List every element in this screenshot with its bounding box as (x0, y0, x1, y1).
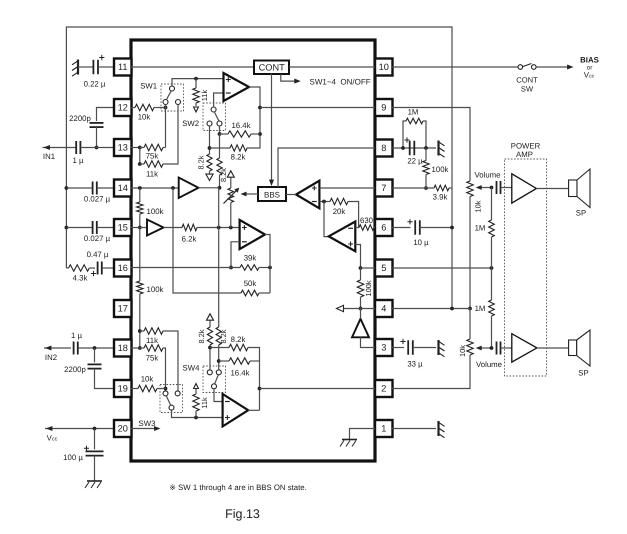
pin 18 (114, 340, 132, 357)
wire frame right continuation to pin 4 net (451, 228, 453, 309)
svg-text:BBS: BBS (264, 191, 280, 200)
svg-text:11k: 11k (146, 170, 158, 179)
ground (pin 3) (437, 340, 439, 355)
svg-text:8.2k: 8.2k (197, 329, 206, 343)
svg-text:3.9k: 3.9k (433, 193, 448, 202)
svg-text:39k: 39k (244, 254, 257, 263)
svg-text:10k: 10k (458, 345, 467, 357)
svg-text:6: 6 (381, 223, 386, 233)
wire pin 6 external (392, 227, 411, 229)
CONT block (254, 61, 289, 75)
wire CONT to pin 10 (289, 66, 375, 68)
node IN1 input arrow (43, 147, 77, 149)
wire SW3 common to op-amp U4 + (172, 410, 223, 417)
svg-text:8.2k: 8.2k (231, 153, 246, 162)
svg-text:10: 10 (379, 62, 389, 72)
svg-text:SP: SP (576, 209, 586, 218)
svg-text:16: 16 (118, 263, 128, 273)
capacitor 0.22u (92, 60, 94, 75)
svg-text:11k: 11k (146, 336, 158, 345)
wire BBS output arrow to variable resistor (245, 193, 259, 195)
open arrow up + resistor 8.2k (vertical left bottom) (207, 314, 214, 320)
svg-text:16.4k: 16.4k (231, 121, 250, 130)
svg-text:1 µ: 1 µ (73, 156, 85, 165)
power amp A5 (lower) (512, 334, 537, 362)
svg-text:7: 7 (381, 183, 386, 193)
resistor 20k (330, 198, 348, 204)
resistor 630 (355, 227, 359, 229)
svg-text:0.027 µ: 0.027 µ (84, 195, 111, 204)
ground (pin 1) (437, 421, 439, 436)
pin 17 (114, 300, 132, 317)
wire (78, 66, 93, 68)
svg-text:630: 630 (360, 216, 374, 225)
wire U2 output (265, 235, 270, 294)
svg-text:10 µ: 10 µ (413, 238, 429, 247)
switch SW3 (160, 385, 183, 413)
resistor 11k (pin 18 upper) (140, 330, 144, 332)
pin 7 (375, 180, 393, 197)
pin 4 (375, 300, 393, 317)
wire pin 13 (131, 147, 140, 149)
resistor 10k (pin 19) (131, 388, 138, 390)
wiper arrow volume 1 (478, 187, 492, 189)
capacitor 10u (414, 220, 416, 235)
wire U5 output to U3 - (324, 202, 329, 237)
ground below 100u (94, 456, 96, 481)
resistor 1M (lower right vertical) (491, 268, 493, 300)
node IN2 input arrow (44, 347, 71, 349)
wire A3 input from pin 3 (361, 337, 376, 347)
wire pin 5 internal (361, 267, 376, 269)
switch CONT SW (518, 65, 523, 70)
SW1 lever (167, 91, 172, 99)
wire pin12 external to 2200p (97, 108, 115, 122)
switch SW1 (161, 84, 184, 111)
op-amp U5 (points left) (329, 222, 356, 252)
resistor 16.4k (bottom) (219, 360, 229, 362)
wire to power amp (501, 187, 512, 189)
svg-text:4: 4 (381, 304, 386, 314)
wire pin 5 external (392, 267, 492, 269)
wire pin 2 internal (260, 388, 376, 390)
resistor 8.2k (vertical right bottom) (218, 326, 220, 328)
wire pin 1 external to ground (392, 428, 436, 430)
wire 11k to SW1 right contact (163, 105, 178, 165)
capacitor coupling (lower amp) (496, 342, 498, 355)
svg-text:8: 8 (381, 143, 386, 153)
wire pot to pin 4 net (469, 197, 471, 309)
svg-text:SW3: SW3 (139, 419, 156, 428)
wire long vertical (buffer node to SW4) (218, 188, 220, 228)
IC body (20-pin) (131, 40, 375, 461)
svg-text:0.22 µ: 0.22 µ (84, 80, 106, 89)
wire pin 8 internal to BBS (278, 148, 375, 187)
svg-text:50k: 50k (244, 279, 257, 288)
wire CONT down to BBS with arrow (271, 74, 273, 183)
resistor 75k (pin 18) (144, 345, 163, 351)
svg-text:14: 14 (118, 183, 128, 193)
svg-text:11k: 11k (200, 397, 209, 409)
wire outer frame left (pin16 net) (66, 27, 452, 268)
resistor 10k (pin 12) (131, 107, 135, 109)
pin 13 (114, 139, 132, 156)
potentiometer Volume 10k (upper) (467, 181, 473, 197)
capacitor 2200p (top) (90, 122, 104, 124)
open arrow down (11k) (195, 103, 197, 106)
svg-text:11k: 11k (200, 90, 209, 102)
pin 19 (114, 380, 132, 397)
wire A1 output (199, 187, 220, 189)
svg-text:3: 3 (381, 343, 386, 353)
wire pin 4 external (392, 308, 470, 310)
wire to pin 19 (95, 369, 115, 389)
wire pin 11 to CONT (131, 66, 254, 68)
svg-text:CONT: CONT (516, 76, 538, 85)
wire (98, 66, 114, 68)
switch SW4 (203, 366, 226, 393)
svg-text:12: 12 (118, 103, 128, 113)
SW2 lever (214, 112, 219, 121)
potentiometer Volume 10k (lower) (467, 339, 473, 355)
wire pin 9 internal (260, 107, 375, 109)
open arrow down (8.2k left) (209, 171, 211, 174)
power amp A4 (upper) (512, 174, 537, 203)
wire 0.027u to frame (pin 15) (65, 226, 69, 230)
svg-text:5: 5 (381, 263, 386, 273)
capacitor 33u (407, 340, 409, 355)
wire 20k to 630 node (348, 202, 359, 228)
pin 5 (375, 260, 393, 277)
svg-text:1M: 1M (408, 108, 419, 117)
wire 11k to SW3 right contact (163, 331, 178, 391)
svg-text:1M: 1M (475, 304, 486, 313)
svg-text:100k: 100k (147, 285, 164, 294)
op-amp U1 (224, 73, 250, 101)
wire 16.4k right end (250, 360, 260, 362)
wire amp to speaker 2 (537, 347, 569, 349)
svg-text:AMP: AMP (516, 150, 533, 159)
svg-text:2: 2 (381, 384, 386, 394)
capacitor 1u (IN1) (75, 141, 77, 154)
resistor 4.3k (pin 16) (66, 267, 68, 269)
svg-text:17: 17 (118, 304, 128, 314)
svg-text:33 µ: 33 µ (407, 360, 423, 369)
svg-text:75k: 75k (146, 354, 159, 363)
wire SW2 right contact down (219, 126, 221, 134)
pin 1 (375, 420, 393, 437)
wire SW1 common up to op-amp U1 + (172, 79, 224, 86)
pin 9 (375, 99, 393, 116)
resistor 3.9k (434, 185, 449, 191)
capacitor 22u (409, 141, 411, 156)
wire amp to speaker 1 (536, 188, 569, 190)
wire 75k to SW3 (163, 348, 166, 391)
wire A2 out to 6.2k (164, 227, 183, 229)
wire op-amp U1 - to SW2 common (214, 93, 224, 107)
wire 0.027u to frame (pin 14) (65, 186, 69, 190)
svg-text:0.47 µ: 0.47 µ (87, 250, 109, 259)
svg-text:6.2k: 6.2k (182, 235, 197, 244)
wire pin 10 to CONT SW (392, 66, 518, 68)
wire (154, 107, 166, 109)
wire 8.2k right end up (247, 134, 260, 148)
resistor 8.2k (vertical left) (207, 154, 212, 171)
POWER AMP dashed box (505, 159, 547, 376)
wire CONT control to SW1~4 with arrow (281, 74, 297, 81)
svg-text:2200p: 2200p (69, 114, 91, 123)
resistor 1M (upper right vertical) (491, 188, 493, 221)
wire pin 7 external (392, 187, 434, 189)
svg-text:10k: 10k (141, 375, 154, 384)
wire U1 output down to pin 9 net (249, 87, 260, 134)
pin 12 (114, 99, 132, 116)
svg-text:22 µ: 22 µ (407, 157, 423, 166)
capacitor 0.027u (pin 14) (92, 182, 94, 195)
BBS block (258, 187, 286, 201)
resistor 1M (pin 8 bridge) (403, 121, 406, 148)
svg-text:1M: 1M (475, 224, 486, 233)
resistor 8.2k (horizontal upper) (210, 147, 231, 149)
wire pin 9 to volume 1 (392, 108, 470, 182)
svg-text:Volume: Volume (476, 360, 502, 369)
pin 14 (114, 180, 132, 197)
wire down to buffer node (219, 175, 221, 188)
wire (96, 127, 98, 147)
capacitor 1u (IN2) (73, 342, 75, 355)
wire pin13 node down (139, 148, 141, 165)
variable arrow diagonal (224, 190, 238, 204)
svg-text:※ SW 1 through 4 are in BBS ON: ※ SW 1 through 4 are in BBS ON state. (169, 483, 306, 492)
buffer amp A2 (pin 15) (147, 220, 164, 236)
pin 15 (114, 219, 132, 236)
svg-text:100k: 100k (364, 280, 373, 296)
svg-text:Fig.13: Fig.13 (225, 507, 260, 521)
wire (97, 187, 114, 189)
wire U2 - input (231, 242, 240, 268)
capacitor 0.47u (pin 16) (97, 262, 99, 275)
pin 8 (375, 140, 393, 157)
svg-text:SW4: SW4 (183, 363, 201, 372)
SW3 lever (166, 396, 170, 405)
svg-text:100k: 100k (432, 165, 449, 174)
svg-text:8.2k: 8.2k (219, 168, 228, 182)
resistor 75k (pin 13) (144, 144, 163, 150)
svg-text:13: 13 (118, 143, 128, 153)
svg-text:11: 11 (118, 62, 128, 72)
buffer amp A1 (pin 14) (179, 178, 199, 199)
wire (89, 267, 95, 269)
svg-text:20: 20 (118, 424, 128, 434)
wire pin 15 internal (131, 227, 147, 229)
wire pin 18 internal (131, 347, 144, 349)
wire 6.2k to op-amp U2 + (197, 227, 240, 229)
wiper arrow volume 2 (478, 347, 492, 349)
pin 16 (114, 260, 132, 277)
wire U4 output (248, 409, 259, 411)
wire pin 7 internal to U3 + (319, 187, 375, 189)
capacitor coupling (upper amp) (496, 181, 498, 194)
resistor 50k (173, 188, 241, 293)
pin 2 (375, 380, 393, 397)
svg-text:BIAS: BIAS (580, 56, 599, 65)
wire pin 4 internal with open arrow (337, 305, 344, 311)
svg-text:1 µ: 1 µ (71, 331, 83, 340)
wire (102, 267, 114, 269)
svg-text:Volume: Volume (474, 171, 500, 180)
speaker SP (lower) (569, 340, 577, 356)
wire pin 8 external (392, 147, 436, 149)
wire U3 - node (319, 201, 330, 203)
ground at 0.22u cap (pin 11) (77, 60, 79, 75)
pin 10 (375, 59, 393, 76)
resistor 100k (lower vertical) (137, 281, 143, 294)
svg-text:SW2: SW2 (182, 119, 199, 128)
wire U5 + down to pin 5 (355, 245, 360, 269)
resistor 11k (SW1 shunt) (195, 79, 197, 88)
svg-text:4.3k: 4.3k (73, 274, 88, 283)
resistor 11k (SW4 shunt) (194, 384, 199, 389)
svg-text:15: 15 (118, 223, 128, 233)
wire SW4 common to op-amp U4 - (214, 389, 223, 402)
svg-text:100k: 100k (147, 207, 164, 216)
resistor 100k (upper vertical) (139, 188, 141, 202)
wire (81, 147, 115, 149)
op-amp U3 (BBS driver, points left) (296, 181, 319, 209)
wire pin 1 internal to ground (350, 429, 376, 440)
wire to BIAS arrow (536, 66, 570, 68)
variable resistor (BBS controlled) (227, 171, 234, 177)
pin 20 (114, 420, 132, 437)
svg-text:10k: 10k (474, 200, 483, 212)
wire pin 2 external to volume 2 (392, 355, 470, 389)
resistor 11k (pin 13 lower) (140, 163, 144, 165)
svg-text:8.2k: 8.2k (197, 155, 206, 169)
svg-text:SW1: SW1 (140, 82, 157, 91)
svg-text:1: 1 (381, 424, 386, 434)
svg-text:100 µ: 100 µ (63, 453, 83, 462)
svg-text:18: 18 (118, 343, 128, 353)
svg-text:16.4k: 16.4k (230, 369, 249, 378)
svg-text:10k: 10k (138, 113, 151, 122)
svg-text:20k: 20k (333, 207, 346, 216)
pin 11 (114, 59, 132, 76)
switch SW2 (203, 103, 226, 131)
resistor 16.4k (220, 133, 229, 135)
resistor 6.2k (182, 224, 197, 230)
svg-text:SP: SP (578, 369, 588, 378)
capacitor 2200p (bottom) (94, 348, 96, 362)
svg-text:19: 19 (118, 384, 128, 394)
wire pin 14 internal (131, 187, 179, 189)
svg-text:2200p: 2200p (64, 365, 86, 374)
wire pin 16 internal (39k net) (131, 267, 240, 269)
svg-text:SW: SW (521, 85, 534, 94)
svg-text:IN2: IN2 (45, 353, 57, 362)
SW4 lever (215, 375, 219, 384)
capacitor 100u (94, 429, 96, 450)
svg-text:SW1~4 ON/OFF: SW1~4 ON/OFF (310, 78, 371, 87)
op-amp U4 (223, 394, 249, 426)
wire SW1 left contact down to 75k (165, 105, 167, 148)
ground (pin 8) (437, 141, 439, 156)
capacitor 0.027u (pin 15) (92, 221, 94, 234)
wire 8.2k right end (248, 348, 260, 362)
resistor 100k (right vertical) (360, 268, 362, 280)
resistor 8.2k (horizontal lower) (210, 347, 229, 349)
svg-text:CONT: CONT (259, 62, 285, 72)
node Vcc arrow (pin 20) (45, 428, 114, 430)
svg-text:8.2k: 8.2k (219, 329, 228, 343)
speaker SP (upper) (569, 180, 577, 197)
pin 6 (375, 219, 393, 236)
svg-text:0.027 µ: 0.027 µ (84, 234, 111, 243)
wire pin 3 external (392, 347, 404, 349)
resistor 39k (240, 265, 259, 271)
resistor 8.2k (vertical right) (219, 134, 221, 158)
wire (97, 227, 114, 229)
wire (78, 347, 114, 349)
node SW3 control arrow (pin 20) (131, 428, 157, 430)
wire BBS to U3 output (286, 194, 296, 196)
op-amp U2 (240, 220, 265, 249)
svg-text:IN1: IN1 (43, 152, 55, 161)
buffer amp A3 (points up) (352, 319, 369, 338)
resistor 100k (3.9k node) (423, 161, 429, 175)
svg-text:8.2k: 8.2k (231, 335, 246, 344)
svg-text:9: 9 (381, 103, 386, 113)
wire SW2 left contact down (209, 126, 211, 154)
svg-text:75k: 75k (146, 152, 159, 161)
pin 3 (375, 339, 393, 356)
